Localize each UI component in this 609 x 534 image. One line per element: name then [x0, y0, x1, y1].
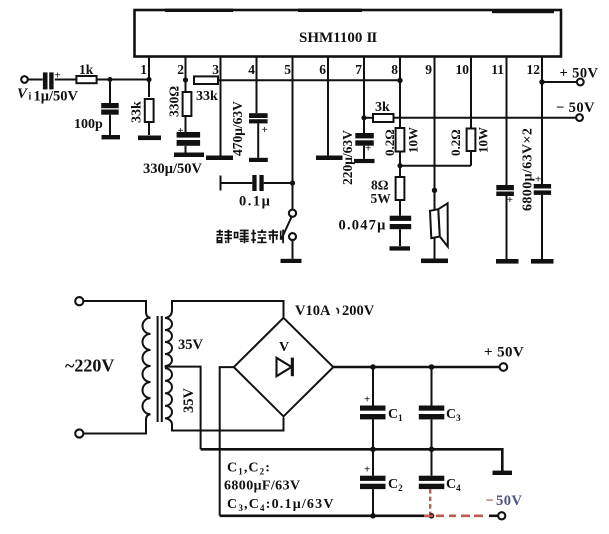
wire pin 6 stub to ground	[327, 57, 329, 156]
svg-text:− 50V: − 50V	[556, 100, 595, 116]
node pin12 +50V junction	[539, 79, 544, 84]
wire pin7 node to 3k	[364, 117, 373, 119]
node pin2 junction	[183, 77, 188, 82]
wire C to R 1k	[55, 79, 77, 81]
wire switch to ground	[292, 240, 294, 259]
svg-text:11: 11	[491, 62, 504, 77]
svg-text:1μ/50V: 1μ/50V	[34, 89, 79, 105]
watermark red dashes on -50V rail	[424, 514, 483, 517]
terminal +50V top	[577, 79, 584, 86]
svg-text:1k: 1k	[79, 62, 94, 77]
wire pin 10 stub	[470, 57, 472, 129]
wire -50V rail from 3k to terminal	[394, 117, 579, 119]
diode inside bridge	[277, 358, 294, 377]
wire mains top to primary	[83, 301, 150, 318]
svg-text:i: i	[29, 92, 32, 103]
wire 6800u A to ground	[506, 196, 508, 259]
capacitor 100p plates	[109, 82, 111, 103]
capacitor 0.1u wiring	[221, 182, 293, 184]
ground speaker	[421, 259, 448, 264]
svg-text:12: 12	[527, 62, 541, 77]
wire pin 2 stub	[185, 57, 187, 92]
transformer T primary winding	[143, 318, 151, 414]
resistor 330ohm	[183, 92, 192, 116]
ground switch	[281, 259, 302, 263]
ground 6800u A	[496, 259, 519, 264]
wire pin 5 stub	[292, 57, 294, 210]
node pin8 lower junction	[397, 163, 402, 168]
svg-text:+: +	[262, 124, 268, 136]
node pin7 junction	[361, 115, 366, 120]
capacitor 1u/50V plates	[43, 72, 48, 89]
capacitor C3	[431, 367, 433, 406]
capacitor C4	[431, 449, 433, 475]
svg-text:SHM1100: SHM1100	[299, 30, 362, 46]
svg-text:+ 50V: + 50V	[560, 66, 599, 82]
rectifier bridge V diamond	[234, 318, 333, 417]
resistor 33k pin1	[145, 99, 154, 122]
svg-text:II: II	[367, 30, 378, 46]
ground 6800u B	[531, 259, 554, 264]
wire 220u to ground	[363, 146, 365, 159]
svg-text:5W: 5W	[371, 191, 392, 206]
svg-text:33k: 33k	[130, 101, 145, 123]
wire 33k to ground	[148, 122, 150, 135]
resistor 3k	[373, 114, 394, 122]
svg-text:10W: 10W	[406, 127, 421, 153]
capacitor 0.1u left stub	[220, 176, 222, 191]
node C4 bottom junction	[429, 513, 435, 519]
ground pin3	[206, 156, 233, 161]
svg-text:~220V: ~220V	[65, 356, 114, 376]
svg-text:0.2Ω: 0.2Ω	[382, 129, 397, 156]
wire 330u to ground	[185, 146, 187, 153]
wire 8ohm to 0.047u	[399, 200, 401, 216]
ground 220u	[354, 159, 375, 163]
svg-text:+: +	[364, 464, 370, 476]
terminal +50V bottom	[500, 363, 508, 371]
svg-text:6800μF/63V: 6800μF/63V	[224, 479, 301, 494]
node pin8 feedback junction	[397, 78, 402, 83]
switch mute control upper contact	[289, 210, 296, 217]
wire pin 11 stub	[506, 57, 508, 186]
svg-text:330Ω: 330Ω	[167, 86, 182, 117]
svg-text:+: +	[365, 143, 371, 155]
svg-text:+: +	[364, 394, 370, 406]
switch lower contact	[289, 233, 296, 240]
svg-text:4: 4	[248, 62, 255, 77]
svg-text:33k: 33k	[196, 89, 218, 104]
resistor 33k feedback	[194, 76, 218, 84]
node A junction	[108, 77, 113, 82]
wire C1 to mid rail	[372, 419, 374, 449]
ground 330u	[174, 153, 204, 158]
resistor 0.2ohm 10W left	[396, 128, 405, 152]
wire -50V rail	[220, 514, 434, 517]
wire 0.047u to ground	[399, 229, 401, 246]
svg-text:C3,C4:0.1μ/63V: C3,C4:0.1μ/63V	[227, 497, 335, 513]
switch lever	[281, 217, 291, 240]
wire pin 8 stub	[399, 57, 401, 129]
ground mid rail	[493, 471, 513, 475]
svg-text:6: 6	[319, 62, 326, 77]
terminal -50V top	[576, 114, 583, 121]
wire pin 3 stub to ground	[220, 57, 222, 156]
terminal mains top	[75, 297, 83, 305]
svg-text:200V: 200V	[342, 303, 375, 319]
wire 0.2ohm right to node line	[470, 151, 472, 166]
input terminal Vi	[21, 76, 28, 83]
label mute control (CJK glyphs drawn)	[217, 230, 285, 244]
wire secondary bottom lead to bridge	[165, 418, 284, 431]
svg-text:0.1μ: 0.1μ	[239, 194, 271, 210]
transformer secondary bottom winding 35V	[165, 368, 172, 418]
svg-text:6800μ/63V×2: 6800μ/63V×2	[521, 128, 536, 211]
capacitor 330u/50V plates	[177, 132, 201, 138]
svg-text:220μ/63V: 220μ/63V	[340, 130, 355, 185]
svg-text:V10A: V10A	[295, 303, 331, 319]
node pin1 junction	[146, 77, 151, 82]
capacitor 6800u A plates	[496, 185, 514, 190]
node C1 top junction	[370, 364, 376, 370]
wire secondary top lead	[165, 301, 284, 318]
ground 470u	[249, 158, 268, 162]
wire mid rail 0V	[201, 449, 503, 471]
wire 6800u B to ground	[541, 195, 543, 259]
capacitor C1	[372, 367, 374, 406]
capacitor C2	[372, 449, 374, 475]
node pin5 cap junction	[290, 180, 295, 185]
speaker BL	[430, 203, 448, 246]
svg-text:0.2Ω: 0.2Ω	[448, 129, 463, 156]
svg-text:35V: 35V	[181, 388, 197, 414]
ground 0.047u	[390, 246, 411, 250]
wire pin 9 stub	[434, 57, 436, 259]
wire pin 7 stub	[363, 57, 365, 134]
svg-text:9: 9	[425, 62, 432, 77]
svg-text:+: +	[507, 194, 513, 206]
ground pin6	[316, 156, 343, 161]
svg-text:35V: 35V	[178, 337, 204, 353]
wire node to 0.2ohm right bottom	[400, 165, 471, 167]
svg-text:10: 10	[456, 62, 470, 77]
svg-text:+: +	[535, 174, 541, 186]
svg-text:−: −	[486, 493, 494, 509]
transformer secondary top winding 35V	[165, 318, 172, 366]
ground pin1	[138, 136, 161, 141]
svg-text:100p: 100p	[74, 117, 103, 132]
node C3 top junction	[429, 364, 435, 370]
wire pin 1 stub	[148, 57, 150, 98]
wire +50V to terminal	[542, 81, 577, 83]
op-amp U1 SHM1100 II IC body	[135, 9, 562, 57]
svg-text:10W: 10W	[476, 127, 491, 153]
svg-text:C1,C2:: C1,C2:	[227, 461, 271, 477]
svg-text:2: 2	[177, 62, 184, 77]
transformer core	[158, 316, 162, 422]
svg-text:3: 3	[212, 62, 219, 77]
wire C2 to -50V rail	[372, 489, 374, 516]
wire 100p to ground	[109, 115, 111, 135]
svg-text:8: 8	[391, 62, 398, 77]
wire mains bottom to primary	[83, 414, 150, 433]
svg-text:50V: 50V	[496, 493, 523, 509]
node C2 bottom junction	[370, 513, 376, 519]
svg-text:330μ/50V: 330μ/50V	[143, 161, 202, 177]
resistor 8ohm 5W	[396, 177, 405, 200]
wire C3 to mid rail	[431, 419, 433, 449]
wire bridge minus down	[220, 367, 234, 516]
svg-text:3k: 3k	[375, 100, 390, 115]
node speaker junction	[432, 188, 437, 193]
wire feedback to pin 8	[218, 79, 400, 81]
svg-text:V: V	[279, 340, 289, 355]
svg-text:1: 1	[140, 62, 147, 77]
capacitor 220u/63V plates	[355, 133, 374, 138]
svg-text:+ 50V: + 50V	[484, 345, 524, 361]
capacitor 6800u B plates	[534, 184, 551, 189]
wire input to C 1u	[28, 79, 43, 81]
wire center tap down	[165, 367, 201, 450]
terminal mains bottom	[75, 429, 83, 437]
capacitor 470u/63V plates	[249, 113, 268, 118]
svg-text:7: 7	[355, 62, 362, 77]
wire R 1k to node A	[97, 79, 149, 81]
wire 330ohm to 330u	[185, 116, 187, 132]
wire +50V rail bottom	[333, 366, 501, 369]
svg-text:0.047μ: 0.047μ	[339, 218, 387, 234]
svg-text:470μ/63V: 470μ/63V	[230, 101, 245, 156]
node C2 top junction	[370, 447, 376, 453]
wire C4 to -50V rail (red dashed watermark)	[429, 489, 431, 516]
wire pin 4 stub	[257, 57, 259, 114]
wire 0.2ohm to node	[399, 152, 401, 178]
svg-text:+: +	[178, 126, 184, 137]
node C4 top junction	[429, 447, 435, 453]
resistor 1k	[76, 76, 96, 83]
capacitor 0.1u plates	[252, 175, 256, 191]
resistor 0.2ohm 10W right	[467, 129, 476, 152]
ground 100p	[102, 135, 121, 139]
capacitor 0.047u plates	[390, 216, 412, 221]
terminal -50V bottom	[498, 512, 505, 519]
wire pin 12 stub	[541, 57, 543, 185]
wire 470u to ground	[257, 123, 259, 157]
svg-text:5: 5	[284, 62, 291, 77]
